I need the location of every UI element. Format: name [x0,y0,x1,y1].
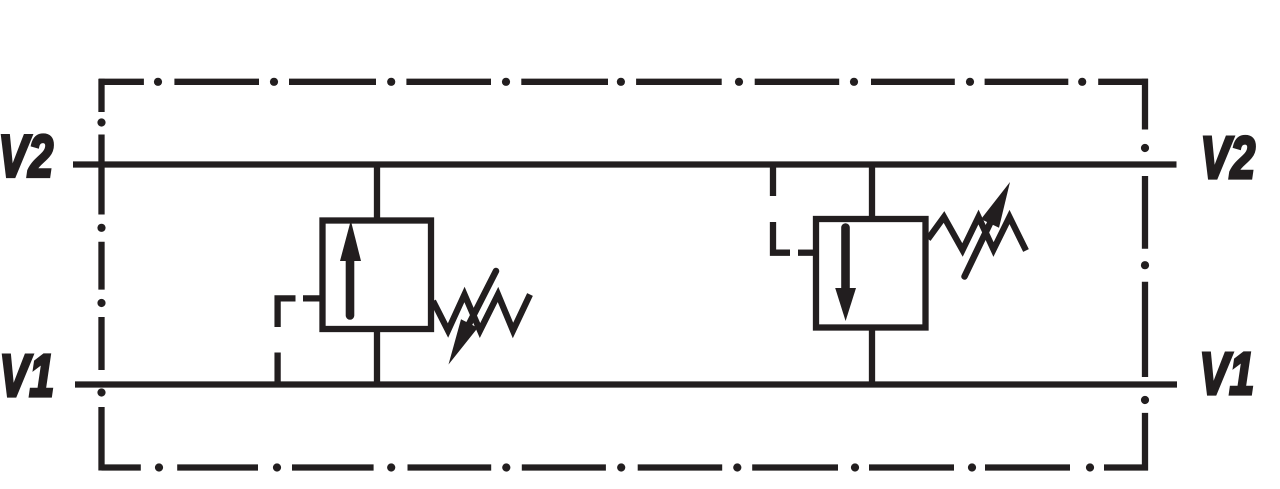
spring of RV1 (zigzag) [433,295,530,331]
pilot line of RV2 (dashed, from V2) [773,167,814,253]
flow arrow inside RV1 (pointing up) [340,221,361,316]
label V2 (left) [0,125,53,190]
label V1 (left) [0,344,54,409]
svg-text:V1: V1 [1199,342,1254,407]
adjustment arrow through RV1 spring (down-left) [449,271,497,365]
wire: V1 port line (bottom horizontal) [75,381,1177,387]
flow arrow inside RV2 (pointing down) [835,228,856,322]
wire: left valve to V1 [374,329,380,385]
wire: right valve to V1 [869,328,875,385]
relief valve RV2 body (right square) [816,219,926,328]
wire: right valve to V2 [869,165,875,222]
enclosure dash-dot border: right side [1141,79,1149,471]
enclosure dash-dot border: bottom side [102,463,1149,471]
svg-text:V1: V1 [0,344,54,409]
enclosure dash-dot border: left side [97,79,105,471]
wire: left valve to V2 [374,165,380,224]
pilot line of RV1 (dashed, from V1) [278,298,321,381]
svg-text:V2: V2 [1200,126,1255,191]
label V1 (right) [1199,342,1254,407]
wire: V2 port line (top horizontal) [73,161,1177,167]
relief valve RV1 body (left square) [323,221,432,330]
spring of RV2 (zigzag) [928,217,1026,251]
label V2 (right) [1200,126,1255,191]
svg-text:V2: V2 [0,125,53,190]
adjustment arrow through RV2 spring (up-right) [965,182,1011,277]
enclosure dash-dot border: top side [99,78,1148,86]
